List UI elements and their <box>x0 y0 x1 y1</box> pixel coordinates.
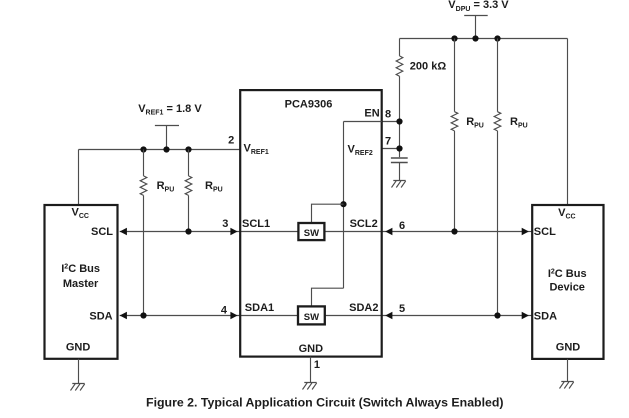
node rail-RPU4 junction <box>494 35 500 41</box>
wire RPU1 lower to SDA <box>143 195 145 315</box>
svg-text:Figure 2. Typical Application: Figure 2. Typical Application Circuit (S… <box>146 396 504 410</box>
svg-text:SCL2: SCL2 <box>350 218 378 230</box>
svg-text:SCL: SCL <box>534 226 556 238</box>
block I2C Bus Device box <box>532 205 603 359</box>
ground master <box>71 384 85 391</box>
wire rail to right box VCC <box>567 39 569 206</box>
wire V_DPU stub <box>475 16 477 39</box>
node VREF2 junction <box>396 145 402 151</box>
wire RPU2 upper <box>188 150 190 176</box>
svg-text:3: 3 <box>222 218 228 230</box>
svg-text:SDA2: SDA2 <box>349 302 378 314</box>
block I2C Bus Master box <box>45 205 118 359</box>
resistor RPU4 <box>494 112 501 131</box>
svg-text:SCL: SCL <box>91 226 113 238</box>
wire RPU3 lower to SCL2 <box>454 131 456 232</box>
wire pin7 VREF2 <box>382 148 400 150</box>
svg-text:GND: GND <box>556 342 581 354</box>
svg-text:6: 6 <box>399 220 405 232</box>
wire EN internal vertical <box>343 122 345 289</box>
wire EN branch to SW2 <box>312 288 344 306</box>
wire EN internal horizontal <box>344 121 382 123</box>
switch SW2 box <box>298 306 325 324</box>
node rail-RPU3 junction <box>451 35 457 41</box>
wire RPU2 lower to SCL <box>188 195 190 231</box>
ground pin1 <box>303 383 317 390</box>
node vref1-power junction <box>163 146 169 152</box>
svg-text:SW: SW <box>304 228 319 239</box>
svg-text:SDA: SDA <box>534 310 557 322</box>
node sda-RPU1 junction <box>140 312 146 318</box>
svg-text:SDA: SDA <box>89 310 112 322</box>
wire EN branch to SW1 <box>312 204 344 223</box>
resistor RPU2 <box>185 176 192 196</box>
svg-text:Device: Device <box>549 282 584 294</box>
wire SCL2 bus (pin 6) <box>324 231 529 233</box>
wire device GND stub <box>567 359 569 382</box>
svg-text:EN: EN <box>364 108 379 120</box>
wire 200k branch upper <box>399 39 401 56</box>
power symbol V_DPU bar <box>464 15 488 17</box>
node scl2-RPU3 junction <box>451 228 457 234</box>
svg-text:GND: GND <box>66 342 91 354</box>
wire RPU3 upper <box>454 39 456 112</box>
svg-text:200 kΩ: 200 kΩ <box>410 61 447 73</box>
wire pin1 GND stub <box>310 357 312 383</box>
wire master GND stub <box>78 359 80 384</box>
resistor RPU1 <box>140 176 147 196</box>
svg-text:8: 8 <box>385 109 391 121</box>
ground device <box>560 382 574 389</box>
svg-text:7: 7 <box>385 136 391 148</box>
svg-text:SW: SW <box>304 312 319 323</box>
svg-text:GND: GND <box>299 343 324 355</box>
wire RPU1 upper <box>143 150 145 176</box>
svg-text:4: 4 <box>221 304 228 316</box>
power symbol V_REF1 bar <box>155 125 179 127</box>
resistor RPU3 <box>451 112 458 131</box>
capacitor on VREF2 <box>391 157 408 159</box>
wire pin8 EN <box>382 121 400 123</box>
op chip PCA9306 box <box>240 90 382 357</box>
node rail-VDPU junction <box>472 35 478 41</box>
wire capacitor to ground <box>399 163 401 181</box>
node scl-RPU2 junction <box>185 228 191 234</box>
ground capacitor <box>392 181 406 188</box>
svg-text:SDA1: SDA1 <box>245 302 274 314</box>
wire SDA bus (pin 4) <box>120 315 298 317</box>
wire RPU4 lower to SDA2 <box>497 131 499 316</box>
svg-text:2: 2 <box>228 135 234 147</box>
wire top V_DPU rail <box>400 38 568 40</box>
svg-text:PCA9306: PCA9306 <box>285 99 333 111</box>
svg-text:SCL1: SCL1 <box>242 218 270 230</box>
wire RPU4 upper <box>497 39 499 112</box>
wire 200k branch lower to EN and VREF2 <box>399 76 401 157</box>
wire VREF1 net (pin 2) <box>79 149 241 151</box>
wire VREF1 to left box VCC <box>78 150 80 206</box>
switch SW1 box <box>298 223 324 240</box>
node sda2-RPU4 junction <box>494 312 500 318</box>
node EN junction <box>396 118 402 124</box>
wire SCL bus (pin 3) <box>120 231 299 233</box>
svg-text:5: 5 <box>399 303 405 315</box>
resistor 200 kOhm <box>396 56 403 76</box>
node EN internal junction <box>340 201 346 207</box>
wire SDA2 bus (pin 5) <box>325 315 529 317</box>
wire V_REF1 stub <box>166 126 168 150</box>
node vref1-RPU1 junction <box>140 146 146 152</box>
svg-text:1: 1 <box>314 359 320 371</box>
node vref1-RPU2 junction <box>185 146 191 152</box>
svg-text:Master: Master <box>63 278 99 290</box>
